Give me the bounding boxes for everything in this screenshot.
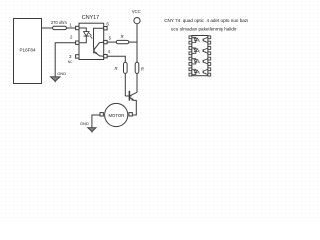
wire base resistor to transistor base xyxy=(124,73,126,96)
pin 6 (left) xyxy=(189,63,192,66)
VCC terminal xyxy=(132,9,141,24)
pin 5 (left) xyxy=(189,57,192,60)
pin 7 (left) xyxy=(189,68,192,71)
svg-text:CNY17: CNY17 xyxy=(82,15,99,21)
svg-text:CNY 74 quad optic 4 adet opt: CNY 74 quad optic 4 adet opto nun bazı xyxy=(164,18,248,23)
pin 11 (right) xyxy=(208,63,211,66)
pin 8 (left) xyxy=(189,73,192,76)
pin 2 (left) xyxy=(189,41,192,44)
pin 9 (right) xyxy=(208,73,211,76)
wire resistor to opto pin1 xyxy=(67,27,76,29)
wire resistor to VCC line xyxy=(129,41,137,43)
wire VCC down xyxy=(136,24,138,63)
resistor R (collector) vertical xyxy=(135,62,144,73)
pin 4 xyxy=(104,55,107,58)
svg-text:P16F84: P16F84 xyxy=(19,48,36,53)
pin 6 xyxy=(104,27,107,30)
svg-text:R: R xyxy=(115,66,118,71)
phototransistor inside CNY17 xyxy=(94,28,104,56)
optocoupler cell 4: phototransistor xyxy=(203,69,208,74)
pin 5 xyxy=(104,40,107,43)
pin 1 xyxy=(76,26,79,29)
ground near motor xyxy=(80,121,96,132)
pin 14 (right) xyxy=(208,47,211,50)
svg-text:NC: NC xyxy=(68,60,73,64)
wire collector resistor down xyxy=(136,73,138,92)
svg-text:ucu olmadan paketlenmiş halidi: ucu olmadan paketlenmiş halidir xyxy=(171,26,237,31)
motor M1 xyxy=(100,103,132,126)
optocoupler cell 4: LED xyxy=(192,69,200,74)
optocoupler cell 1: LED xyxy=(192,37,200,42)
pin 2 xyxy=(76,41,79,44)
svg-text:GND: GND xyxy=(57,71,66,76)
pin 4 (left) xyxy=(189,52,192,55)
svg-text:GND: GND xyxy=(80,121,89,126)
wire motor to ground xyxy=(92,115,100,128)
wire opto pin4 to base resistor xyxy=(107,56,125,62)
resistor R (pin5 pull-up) xyxy=(116,34,129,44)
svg-text:R: R xyxy=(141,67,144,72)
pin 3 (left) xyxy=(189,47,192,50)
svg-text:270 ohm: 270 ohm xyxy=(51,20,68,25)
pin 1 (left) xyxy=(189,36,192,39)
optocoupler cell 3: LED xyxy=(192,59,200,64)
pin 3 NC xyxy=(76,55,79,58)
resistor R (base) vertical xyxy=(115,62,128,73)
svg-text:R: R xyxy=(121,34,124,39)
IC U3 CNY74 DIP-16 xyxy=(189,36,211,77)
optocoupler cell 2: LED xyxy=(192,48,200,53)
wire opto pin2 to ground xyxy=(55,43,75,77)
svg-text:VCC: VCC xyxy=(132,9,141,14)
LED arrows xyxy=(89,33,93,39)
svg-text:MOTOR: MOTOR xyxy=(108,113,124,118)
pin 10 (right) xyxy=(208,68,211,71)
pin 12 (right) xyxy=(208,57,211,60)
optocoupler U1 CNY17 xyxy=(68,15,112,64)
pin 13 (right) xyxy=(208,52,211,55)
wire opto pin5 to resistor xyxy=(107,41,116,43)
note text CNY74 xyxy=(164,18,248,31)
optocoupler cell 2: phototransistor xyxy=(203,48,208,53)
LED D1 inside CNY17 xyxy=(79,28,93,43)
pin 15 (right) xyxy=(208,41,211,44)
optocoupler cell 3: phototransistor xyxy=(203,59,208,64)
microcontroller U2 P16F84 xyxy=(14,19,42,84)
resistor R 270 ohm xyxy=(51,20,68,30)
optocoupler cell 1: phototransistor xyxy=(203,37,208,42)
ground near PIC xyxy=(51,71,67,82)
transistor Q1 NPN xyxy=(125,91,137,115)
wire PIC to resistor xyxy=(42,27,53,29)
pin 16 (right) xyxy=(208,36,211,39)
